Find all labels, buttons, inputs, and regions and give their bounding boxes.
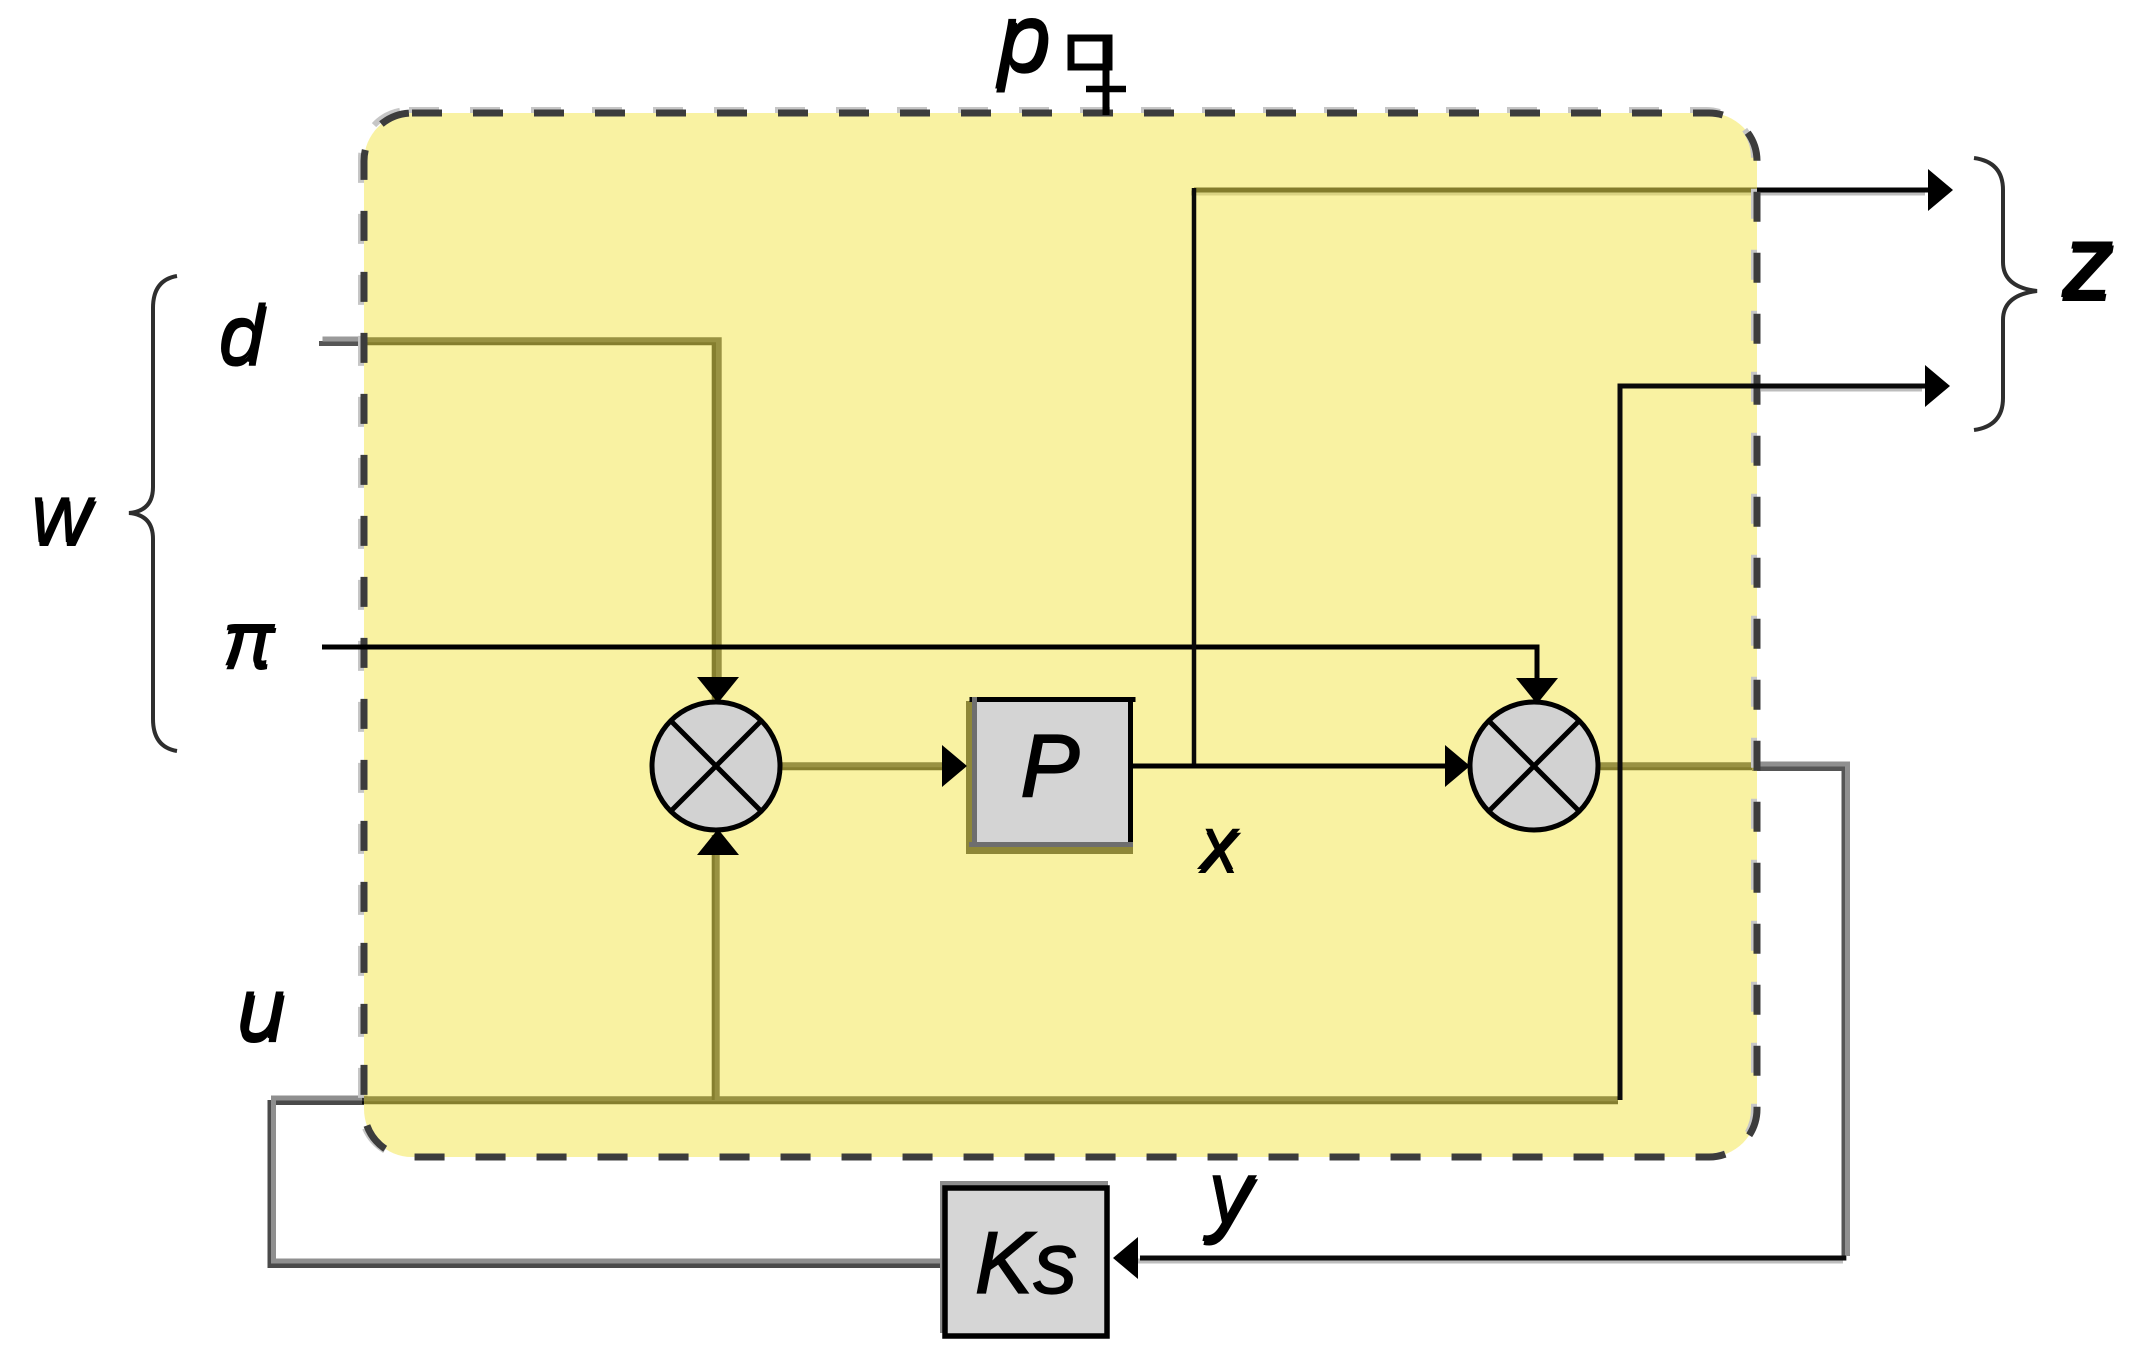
arrowhead z1 bbox=[1928, 169, 1953, 211]
arrowhead y into Ks bbox=[1113, 1237, 1138, 1279]
arrowhead d into M1 top bbox=[697, 677, 739, 703]
wire z2: u tapped up to second output bbox=[1620, 365, 1950, 1100]
wire: plant P output to multiplier M2 bbox=[1133, 745, 1470, 787]
svg-text:d: d bbox=[219, 293, 267, 384]
plant block P bbox=[969, 697, 1136, 847]
arrowhead into P bbox=[942, 745, 967, 787]
svg-text:p: p bbox=[996, 0, 1052, 94]
dashed boundary light shadow bbox=[361, 110, 1754, 1157]
shadow rect of plant block P bbox=[966, 701, 1133, 854]
arrowhead pi into M2 top bbox=[1516, 678, 1558, 704]
wire pi: second disturbance input into multiplier M2 bbox=[322, 647, 1558, 704]
arrowhead z2 bbox=[1925, 365, 1950, 407]
svg-text:π: π bbox=[223, 598, 277, 686]
brace z (right curly brace) bbox=[1974, 158, 2037, 430]
wire: multiplier M2 output right and down to y bbox=[1597, 764, 1848, 1261]
controller block Ks bbox=[940, 1181, 1108, 1336]
multiplier M1 (circle with X) bbox=[652, 702, 780, 830]
wire z1: state x tapped up to first output bbox=[1191, 169, 1953, 211]
wire u feedback loop: Ks output to plant input bbox=[270, 1098, 1618, 1266]
svg-text:x: x bbox=[1197, 805, 1242, 890]
brace w (left curly brace) bbox=[129, 276, 177, 751]
wire d: disturbance input into multiplier M1 bbox=[319, 339, 719, 700]
svg-text:z: z bbox=[2062, 207, 2116, 324]
svg-text:y: y bbox=[1203, 1147, 1259, 1247]
svg-text:P: P bbox=[1021, 716, 1080, 815]
multiplier M2 (circle with X) bbox=[1470, 702, 1598, 830]
wire: multiplier M1 output to plant P bbox=[781, 765, 944, 768]
wire: u branch up into multiplier M1 bottom bbox=[714, 835, 717, 1100]
label p~ (top) bbox=[995, 0, 1126, 115]
svg-text:Ks: Ks bbox=[975, 1213, 1078, 1312]
dashed boundary of plant bbox=[364, 113, 1757, 1157]
svg-text:w: w bbox=[32, 470, 98, 564]
arrowhead u into M1 bottom bbox=[697, 829, 739, 855]
arrowhead into M2 left bbox=[1445, 745, 1470, 787]
svg-text:u: u bbox=[238, 962, 287, 1061]
glyph: crossed q symbol bbox=[1071, 36, 1126, 115]
wire y: measurement into controller Ks bbox=[1113, 1237, 1846, 1279]
wire: x branch up to z1 bbox=[1192, 188, 1197, 768]
yellow region of generalized plant bbox=[364, 113, 1757, 1157]
